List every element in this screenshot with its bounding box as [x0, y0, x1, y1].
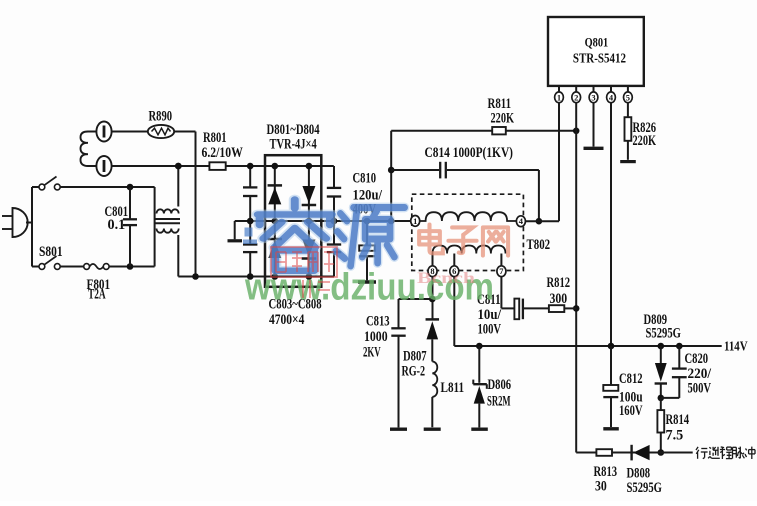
svg-text:R813: R813 [594, 464, 618, 480]
svg-text:S5295G: S5295G [627, 480, 662, 496]
svg-text:4700×4: 4700×4 [269, 312, 304, 328]
svg-text:300: 300 [550, 291, 568, 307]
svg-text:SR2M: SR2M [487, 394, 511, 410]
svg-text:R801: R801 [203, 130, 227, 146]
svg-text:5: 5 [626, 92, 630, 102]
svg-text:30: 30 [595, 479, 607, 495]
svg-text:1: 1 [413, 216, 417, 226]
svg-text:1: 1 [557, 92, 561, 102]
svg-text:C813: C813 [366, 313, 390, 329]
svg-text:1000: 1000 [364, 329, 388, 345]
svg-text:100V: 100V [478, 322, 502, 338]
svg-text:7.5: 7.5 [666, 428, 684, 444]
svg-text:C812: C812 [619, 371, 643, 387]
svg-text:R812: R812 [547, 275, 571, 291]
svg-text:C814 1000P(1KV): C814 1000P(1KV) [425, 145, 514, 161]
svg-text:6.2/10W: 6.2/10W [202, 145, 243, 161]
svg-text:TVR-4J×4: TVR-4J×4 [270, 136, 317, 152]
svg-text:STR-S5412: STR-S5412 [573, 51, 626, 66]
svg-text:R814: R814 [666, 412, 690, 428]
svg-text:D806: D806 [488, 377, 512, 393]
svg-text:Q801: Q801 [585, 34, 609, 49]
svg-text:R890: R890 [149, 108, 173, 124]
svg-text:500V: 500V [688, 381, 712, 397]
svg-text:4: 4 [519, 216, 524, 226]
svg-text:S801: S801 [39, 244, 63, 260]
svg-text:7: 7 [499, 266, 504, 276]
svg-text:RG-2: RG-2 [402, 364, 426, 380]
svg-text:S5295G: S5295G [646, 326, 681, 342]
svg-text:160V: 160V [619, 403, 643, 419]
svg-text:L811: L811 [441, 380, 465, 396]
svg-text:T2A: T2A [88, 287, 106, 303]
svg-text:D807: D807 [403, 349, 427, 365]
svg-text:T802: T802 [527, 237, 551, 253]
svg-text:220K: 220K [491, 111, 515, 127]
svg-text:10u/: 10u/ [478, 307, 503, 323]
svg-text:C810: C810 [353, 171, 377, 187]
svg-text:114V: 114V [724, 339, 748, 354]
svg-text:Bcnch: Bcnch [417, 270, 475, 287]
svg-text:2: 2 [574, 92, 578, 102]
svg-text:C820: C820 [685, 351, 709, 367]
svg-text:3: 3 [591, 92, 595, 102]
svg-text:220K: 220K [633, 133, 657, 149]
svg-text:R811: R811 [488, 96, 512, 112]
svg-text:0.1: 0.1 [108, 217, 126, 233]
svg-text:2KV: 2KV [363, 344, 381, 360]
